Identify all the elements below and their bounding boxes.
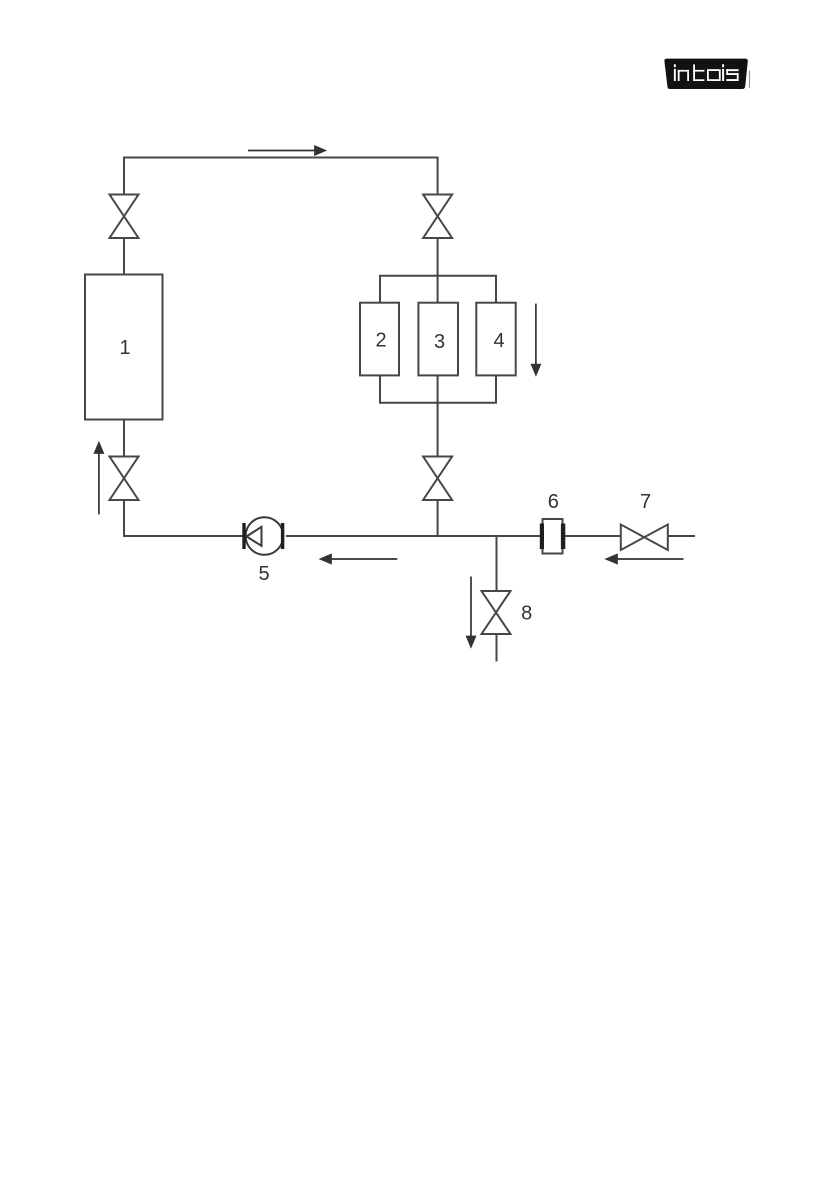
arrow flow left pump (321, 555, 398, 564)
svg-text:1: 1 (119, 337, 130, 359)
logo letter i2 (722, 64, 724, 81)
filter 6 body (543, 519, 563, 554)
logo intois plate (664, 59, 747, 89)
valve V1 top-left (110, 195, 139, 239)
pump 5 right flange (281, 523, 284, 549)
svg-text:7: 7 (640, 491, 651, 513)
logo letter o (708, 70, 720, 80)
wire filter 6 to valve 7 (566, 535, 621, 537)
column 2 (360, 303, 399, 376)
wire valve V2 down to bottom line (124, 500, 243, 536)
filter 6 left bar (540, 524, 544, 550)
svg-text:3: 3 (434, 331, 445, 353)
svg-text:6: 6 (548, 491, 559, 513)
filter 6 right bar (561, 524, 565, 550)
valve 8 drain (482, 591, 511, 634)
logo letter t (693, 64, 704, 81)
valve 7 horizontal (621, 525, 668, 551)
arrow flow down manifold (532, 304, 540, 375)
logo right tick (749, 71, 750, 89)
pump 5 circle (246, 517, 284, 555)
wire valve 7 to inlet (668, 535, 695, 537)
logo letter s (726, 69, 738, 81)
wire manifold top bracket (380, 276, 496, 303)
wire top header loop (124, 158, 438, 196)
wire node J1 down to valve 8 (496, 536, 498, 591)
svg-text:8: 8 (521, 603, 532, 625)
column 3 (418, 303, 458, 376)
wire valve V4 to bottom line (437, 500, 439, 536)
logo letter i1 (674, 64, 676, 81)
arrow flow up left (95, 443, 103, 514)
valve V4 lower-right (423, 457, 452, 501)
wire valve V3 to manifold (437, 238, 439, 303)
arrow flow left inlet (607, 555, 684, 564)
wire column 3 to valve V4 (437, 375, 439, 456)
svg-text:2: 2 (375, 330, 386, 352)
tank 1 (85, 275, 163, 420)
svg-text:4: 4 (493, 330, 504, 352)
pump 5 left flange (242, 523, 245, 549)
wire pump 5 to node J1 (286, 535, 540, 537)
svg-text:5: 5 (258, 563, 269, 585)
valve V3 top-right (423, 195, 452, 239)
wire valve V1 to tank 1 (123, 238, 125, 275)
pump 5 impeller triangle (247, 527, 262, 546)
arrow flow down drain (467, 577, 475, 647)
wire manifold bottom bracket (380, 375, 496, 402)
arrow flow top right (248, 146, 325, 154)
valve V2 lower-left (110, 457, 139, 501)
logo letter n (678, 70, 689, 81)
wire valve 8 drain (496, 634, 498, 662)
wire tank 1 to valve V2 (123, 420, 125, 457)
column 4 (476, 303, 515, 376)
